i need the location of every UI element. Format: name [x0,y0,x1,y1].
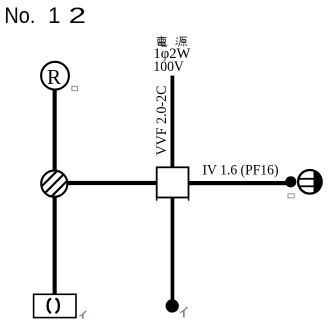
wall outlet symbol (circle, wall side filled) [296,168,326,196]
svg-text:IV 1.6 (PF16): IV 1.6 (PF16) [203,163,279,179]
svg-text:No.: No. [4,3,35,28]
node: conduit end dot [285,176,296,187]
svg-text:2: 2 [69,3,86,28]
svg-text:R: R [47,65,61,89]
title label No.12 [4,3,86,28]
ceiling light fixture box (角形引掛シーリング) [34,294,76,317]
wire: outlet box to conduit dot (horizontal right, IV in PF16) [188,181,288,185]
power source label 源 [176,37,188,47]
fixture symbol ( ) [48,299,59,313]
power source label 電 [157,36,167,46]
svg-text:100V: 100V [153,59,184,75]
wire: junction box circle to ceiling fixture (vertical) [53,197,57,295]
outlet box (square) [157,167,189,197]
wire: receptacle R to junction box circle (vertical) [53,90,57,171]
wire: junction box circle to outlet box (horizontal left) [66,181,158,185]
label イ (ceiling fixture) [79,311,86,319]
label ロ (right outlet) [288,194,294,198]
label イ (switch) [180,307,188,317]
svg-text:1: 1 [48,3,60,28]
switch イ (filled circle) [166,299,179,312]
wire: power feed vertical [171,76,175,168]
svg-text:VVF 2.0-2C: VVF 2.0-2C [154,86,170,156]
junction box (hatched circle) [38,166,72,198]
label ロ (receptacle R) [72,86,78,90]
lamp receptacle R [41,62,69,90]
wire: outlet box to switch (vertical bottom) [171,198,175,300]
outlet box corner ticks [156,198,157,201]
